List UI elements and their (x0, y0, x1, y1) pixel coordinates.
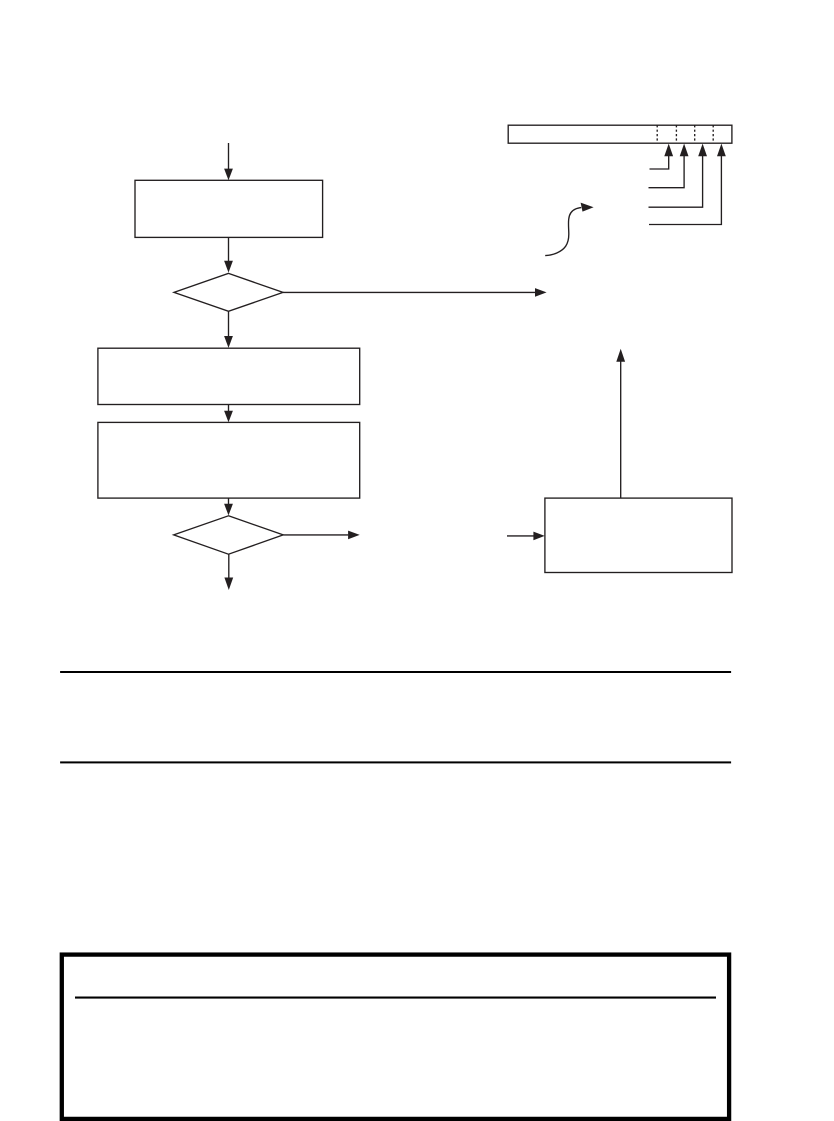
wire D2 right branch arrow (283, 531, 360, 540)
wire B3 to diamond D2 (224, 498, 233, 515)
note box rule (75, 997, 716, 999)
note box N1 (thick border) (62, 955, 729, 1119)
wire entry arrow into B4 (507, 532, 545, 541)
wire bit pointer arrow A3 (649, 144, 708, 208)
wire B1 to diamond D1 (224, 237, 233, 272)
register bit divider b2 (dotted) (675, 125, 677, 143)
process box B4 (545, 498, 732, 572)
horizontal rule HR1 (60, 671, 731, 673)
horizontal rule HR2 (60, 761, 731, 763)
wire B2 to process box B3 (224, 405, 233, 423)
wire B4 up exit arrow (616, 349, 625, 498)
decision diamond D2 (174, 516, 284, 554)
register bar R1 (508, 125, 732, 143)
wire D1 to process box B2 (224, 311, 233, 348)
wire D1 right branch arrow (283, 288, 547, 297)
register bit divider b3 (dotted) (694, 125, 696, 143)
wire entry arrow into process box B1 (224, 143, 233, 180)
wire D2 down exit arrow (224, 554, 233, 590)
process box B2 (98, 348, 360, 404)
wire bit pointer arrow A1 (650, 144, 674, 169)
wire bit pointer arrow A2 (649, 144, 689, 188)
wire bit pointer arrow A4 (649, 144, 726, 225)
process box B1 (135, 180, 323, 237)
decision diamond D1 (174, 273, 283, 311)
process box B3 (98, 422, 360, 498)
register bit divider b4 (dotted) (712, 125, 714, 143)
register bit divider b1 (dotted) (656, 125, 658, 143)
curved callout arrow S1 (545, 203, 593, 256)
